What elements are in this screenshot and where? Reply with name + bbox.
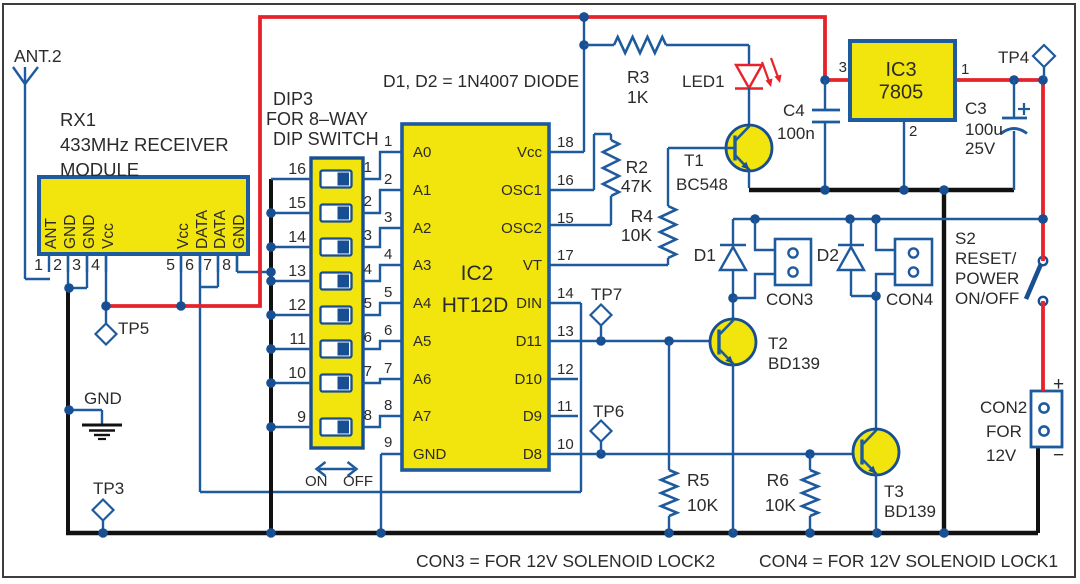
svg-text:14: 14 (557, 285, 574, 302)
svg-text:3: 3 (72, 257, 81, 274)
svg-text:DIN: DIN (516, 295, 542, 312)
svg-text:8: 8 (364, 407, 372, 424)
svg-text:CON3: CON3 (766, 290, 813, 309)
svg-text:100n: 100n (777, 124, 815, 143)
svg-text:DIP SWITCH: DIP SWITCH (273, 129, 379, 149)
svg-text:4: 4 (364, 261, 372, 278)
svg-text:6: 6 (364, 329, 372, 346)
svg-text:D8: D8 (523, 446, 542, 463)
svg-text:1: 1 (364, 159, 372, 176)
svg-text:10K: 10K (765, 495, 796, 515)
svg-text:ON/OFF: ON/OFF (955, 289, 1019, 308)
svg-text:433MHz RECEIVER: 433MHz RECEIVER (60, 134, 229, 155)
svg-text:HT12D: HT12D (442, 294, 509, 317)
svg-text:C4: C4 (783, 101, 805, 120)
svg-text:POWER: POWER (955, 269, 1019, 288)
svg-text:TP5: TP5 (118, 319, 149, 338)
svg-text:8: 8 (222, 257, 231, 274)
svg-text:S2: S2 (955, 229, 976, 248)
svg-text:11: 11 (557, 398, 573, 415)
svg-text:TP7: TP7 (591, 285, 622, 304)
svg-text:ANT.2: ANT.2 (14, 46, 62, 66)
svg-text:RX1: RX1 (60, 109, 96, 130)
svg-text:R5: R5 (687, 470, 709, 490)
svg-text:T3: T3 (884, 482, 904, 501)
svg-text:3: 3 (384, 209, 392, 226)
svg-text:12V: 12V (986, 446, 1017, 465)
svg-text:9: 9 (384, 434, 392, 451)
svg-text:6: 6 (185, 257, 194, 274)
svg-text:10K: 10K (687, 495, 718, 515)
svg-text:15: 15 (288, 195, 306, 212)
svg-text:5: 5 (166, 257, 175, 274)
svg-text:DIP3: DIP3 (273, 89, 313, 109)
svg-text:CON4: CON4 (886, 290, 933, 309)
svg-text:GND: GND (231, 215, 248, 249)
svg-text:A4: A4 (413, 295, 431, 312)
svg-text:1: 1 (961, 61, 969, 78)
svg-text:6: 6 (384, 322, 392, 339)
svg-text:CON2: CON2 (980, 398, 1027, 417)
svg-text:100u: 100u (965, 120, 1003, 139)
svg-text:A6: A6 (413, 371, 431, 388)
svg-text:12: 12 (288, 297, 306, 314)
svg-text:DATA: DATA (194, 209, 211, 249)
svg-text:8: 8 (384, 397, 392, 414)
svg-text:A5: A5 (413, 333, 431, 350)
svg-text:A0: A0 (413, 144, 431, 161)
svg-text:R6: R6 (767, 470, 789, 490)
svg-text:CON4 = FOR 12V SOLENOID LOCK: CON4 = FOR 12V SOLENOID LOCK1 (759, 551, 1058, 571)
svg-text:7: 7 (203, 257, 212, 274)
svg-text:17: 17 (557, 247, 574, 264)
svg-text:TP3: TP3 (93, 479, 124, 498)
svg-text:VT: VT (523, 257, 542, 274)
svg-text:Vcc: Vcc (100, 223, 117, 249)
svg-text:RESET/: RESET/ (955, 249, 1017, 268)
svg-text:5: 5 (384, 284, 392, 301)
svg-text:FOR: FOR (986, 422, 1022, 441)
svg-text:7805: 7805 (879, 82, 924, 104)
svg-text:GND: GND (84, 389, 122, 408)
svg-text:D1, D2 = 1N4007 DIODE: D1, D2 = 1N4007 DIODE (383, 71, 579, 91)
svg-text:47K: 47K (621, 176, 652, 196)
svg-text:7: 7 (384, 360, 392, 377)
svg-text:D10: D10 (514, 371, 542, 388)
svg-text:BC548: BC548 (676, 175, 728, 194)
svg-text:A2: A2 (413, 220, 431, 237)
svg-text:4: 4 (91, 257, 100, 274)
svg-text:MODULE: MODULE (60, 159, 139, 180)
svg-text:−: − (1053, 445, 1064, 466)
svg-text:2: 2 (53, 257, 62, 274)
svg-text:13: 13 (288, 263, 306, 280)
svg-text:18: 18 (557, 134, 574, 151)
svg-text:TP6: TP6 (593, 402, 624, 421)
svg-text:1: 1 (384, 133, 392, 150)
svg-text:13: 13 (557, 323, 574, 340)
svg-text:Vcc: Vcc (517, 144, 543, 161)
svg-text:IC3: IC3 (885, 59, 916, 81)
svg-text:16: 16 (557, 172, 574, 189)
svg-text:2: 2 (384, 171, 392, 188)
svg-text:A1: A1 (413, 182, 431, 199)
svg-text:D11: D11 (516, 333, 542, 350)
svg-text:DATA: DATA (212, 209, 229, 249)
svg-text:GND: GND (81, 215, 98, 249)
svg-text:1K: 1K (627, 87, 649, 107)
svg-text:OSC2: OSC2 (501, 220, 542, 237)
svg-text:A3: A3 (413, 257, 431, 274)
svg-text:10: 10 (557, 436, 574, 453)
svg-text:D9: D9 (523, 408, 542, 425)
svg-text:GND: GND (62, 215, 79, 249)
svg-text:OSC1: OSC1 (501, 182, 542, 199)
svg-text:D2: D2 (817, 245, 839, 265)
svg-text:CON3 = FOR 12V SOLENOID LOCK: CON3 = FOR 12V SOLENOID LOCK2 (416, 551, 715, 571)
svg-text:GND: GND (413, 446, 447, 463)
svg-text:BD139: BD139 (768, 354, 820, 373)
svg-text:4: 4 (384, 246, 392, 263)
svg-text:16: 16 (288, 161, 306, 178)
svg-text:IC2: IC2 (461, 262, 494, 285)
svg-text:ON: ON (305, 473, 328, 490)
svg-text:7: 7 (364, 363, 372, 380)
svg-text:ANT: ANT (43, 217, 60, 249)
svg-text:LED1: LED1 (682, 72, 725, 91)
svg-text:TP4: TP4 (998, 48, 1029, 67)
svg-text:BD139: BD139 (884, 502, 936, 521)
svg-text:C3: C3 (965, 99, 987, 118)
svg-text:11: 11 (289, 331, 306, 348)
svg-text:12: 12 (557, 361, 574, 378)
svg-text:D1: D1 (694, 245, 716, 265)
svg-text:5: 5 (364, 295, 372, 312)
svg-text:2: 2 (909, 123, 917, 140)
svg-text:R2: R2 (626, 157, 648, 177)
svg-text:FOR 8–WAY: FOR 8–WAY (266, 109, 368, 129)
svg-text:+: + (1053, 374, 1064, 395)
svg-text:3: 3 (364, 227, 372, 244)
svg-text:T1: T1 (684, 151, 704, 170)
svg-text:9: 9 (297, 409, 306, 426)
svg-text:T2: T2 (768, 334, 788, 353)
svg-text:10K: 10K (621, 225, 652, 245)
svg-text:OFF: OFF (343, 473, 373, 490)
svg-text:14: 14 (288, 229, 306, 246)
svg-text:2: 2 (364, 193, 372, 210)
svg-text:A7: A7 (413, 408, 431, 425)
svg-text:R4: R4 (631, 206, 654, 226)
svg-text:R3: R3 (627, 67, 649, 87)
svg-text:25V: 25V (965, 139, 996, 158)
svg-text:Vcc: Vcc (175, 223, 192, 249)
svg-text:1: 1 (34, 257, 43, 274)
svg-text:3: 3 (839, 59, 847, 76)
svg-text:10: 10 (288, 365, 306, 382)
